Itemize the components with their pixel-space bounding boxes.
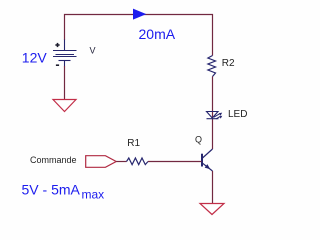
- svg-text:12V: 12V: [22, 50, 48, 66]
- wire top rail from battery to R2 branch: [65, 15, 213, 56]
- ground left: [53, 100, 76, 112]
- svg-text:Commande: Commande: [30, 155, 77, 165]
- resistor R2: [208, 56, 216, 77]
- wire R1 to base: [148, 161, 202, 163]
- LED emission arrowheads: [219, 113, 223, 116]
- svg-text:R2: R2: [222, 58, 235, 69]
- svg-text:R1: R1: [127, 138, 140, 149]
- port Commande (input connector): [86, 156, 117, 168]
- svg-text:LED: LED: [228, 109, 247, 120]
- wire port to R1: [116, 161, 126, 163]
- svg-text:V: V: [90, 46, 96, 56]
- wire emitter to ground: [212, 171, 214, 204]
- ground right: [200, 204, 224, 215]
- current direction arrow: [133, 9, 146, 20]
- svg-text:max: max: [82, 187, 105, 201]
- svg-text:5V - 5mA: 5V - 5mA: [22, 182, 81, 198]
- svg-text:20mA: 20mA: [139, 26, 176, 42]
- wire battery to ground: [64, 66, 66, 100]
- resistor R1: [127, 158, 149, 165]
- svg-text:Q: Q: [195, 134, 202, 144]
- transistor Q (NPN): [202, 149, 213, 171]
- wire R2 to LED to collector: [212, 77, 214, 150]
- battery plus sign: [55, 43, 59, 47]
- transistor emitter arrowhead: [205, 164, 211, 169]
- battery V1 12V: [53, 40, 77, 67]
- battery minus sign: [56, 64, 59, 66]
- LED D1: [207, 112, 220, 120]
